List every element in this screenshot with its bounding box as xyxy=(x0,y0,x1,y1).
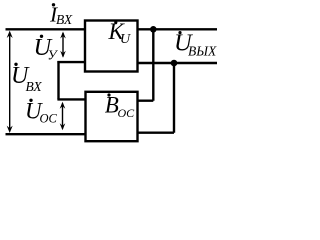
label K_U inside amplifier block xyxy=(108,19,132,47)
wire: top input wire (I_BX) xyxy=(6,28,87,30)
svg-text:ВЫХ: ВЫХ xyxy=(188,44,217,59)
wire: B_OC lower right input stub xyxy=(137,131,174,133)
node: junction dot on lower output wire xyxy=(171,60,178,67)
label B_OC inside feedback block xyxy=(105,93,135,120)
label U_BX (source voltage) xyxy=(11,63,42,94)
svg-text:ОС: ОС xyxy=(118,106,136,120)
wire: vertical from top output dot xyxy=(152,29,154,100)
label I_BX (input current) xyxy=(49,3,73,27)
svg-text:ВХ: ВХ xyxy=(26,79,43,94)
svg-text:ОС: ОС xyxy=(40,111,58,125)
svg-text:U: U xyxy=(120,32,131,47)
wire: top output wire to U_BYX xyxy=(137,28,217,30)
arrow U_OC (feedback voltage, double-headed) xyxy=(60,102,66,130)
node: junction dot on top output wire xyxy=(150,26,157,33)
wire: feedback output wire LL1 xyxy=(57,98,86,100)
wire: line A (K_U lower input) xyxy=(57,61,86,63)
wire: B_OC upper right input stub xyxy=(137,99,153,101)
label U_BYX (output voltage) xyxy=(174,30,217,59)
feedback block B_OC rectangle xyxy=(86,92,138,141)
wire: lower output wire xyxy=(137,62,217,64)
op-amp block U1 K_U rectangle xyxy=(85,21,138,72)
label U_Y (amplifier input voltage) xyxy=(34,34,59,63)
wire: feedback drop wire xyxy=(57,61,59,99)
wire: bottom rail xyxy=(6,133,87,135)
wire: vertical from lower output dot xyxy=(173,63,175,133)
arrow U_BX (input voltage, double-headed vertical at far left) xyxy=(7,31,13,133)
arrow U_Y (amplifier input voltage, double-headed) xyxy=(60,32,66,58)
svg-text:ВХ: ВХ xyxy=(56,12,73,27)
label U_OC (feedback voltage) xyxy=(25,99,58,126)
